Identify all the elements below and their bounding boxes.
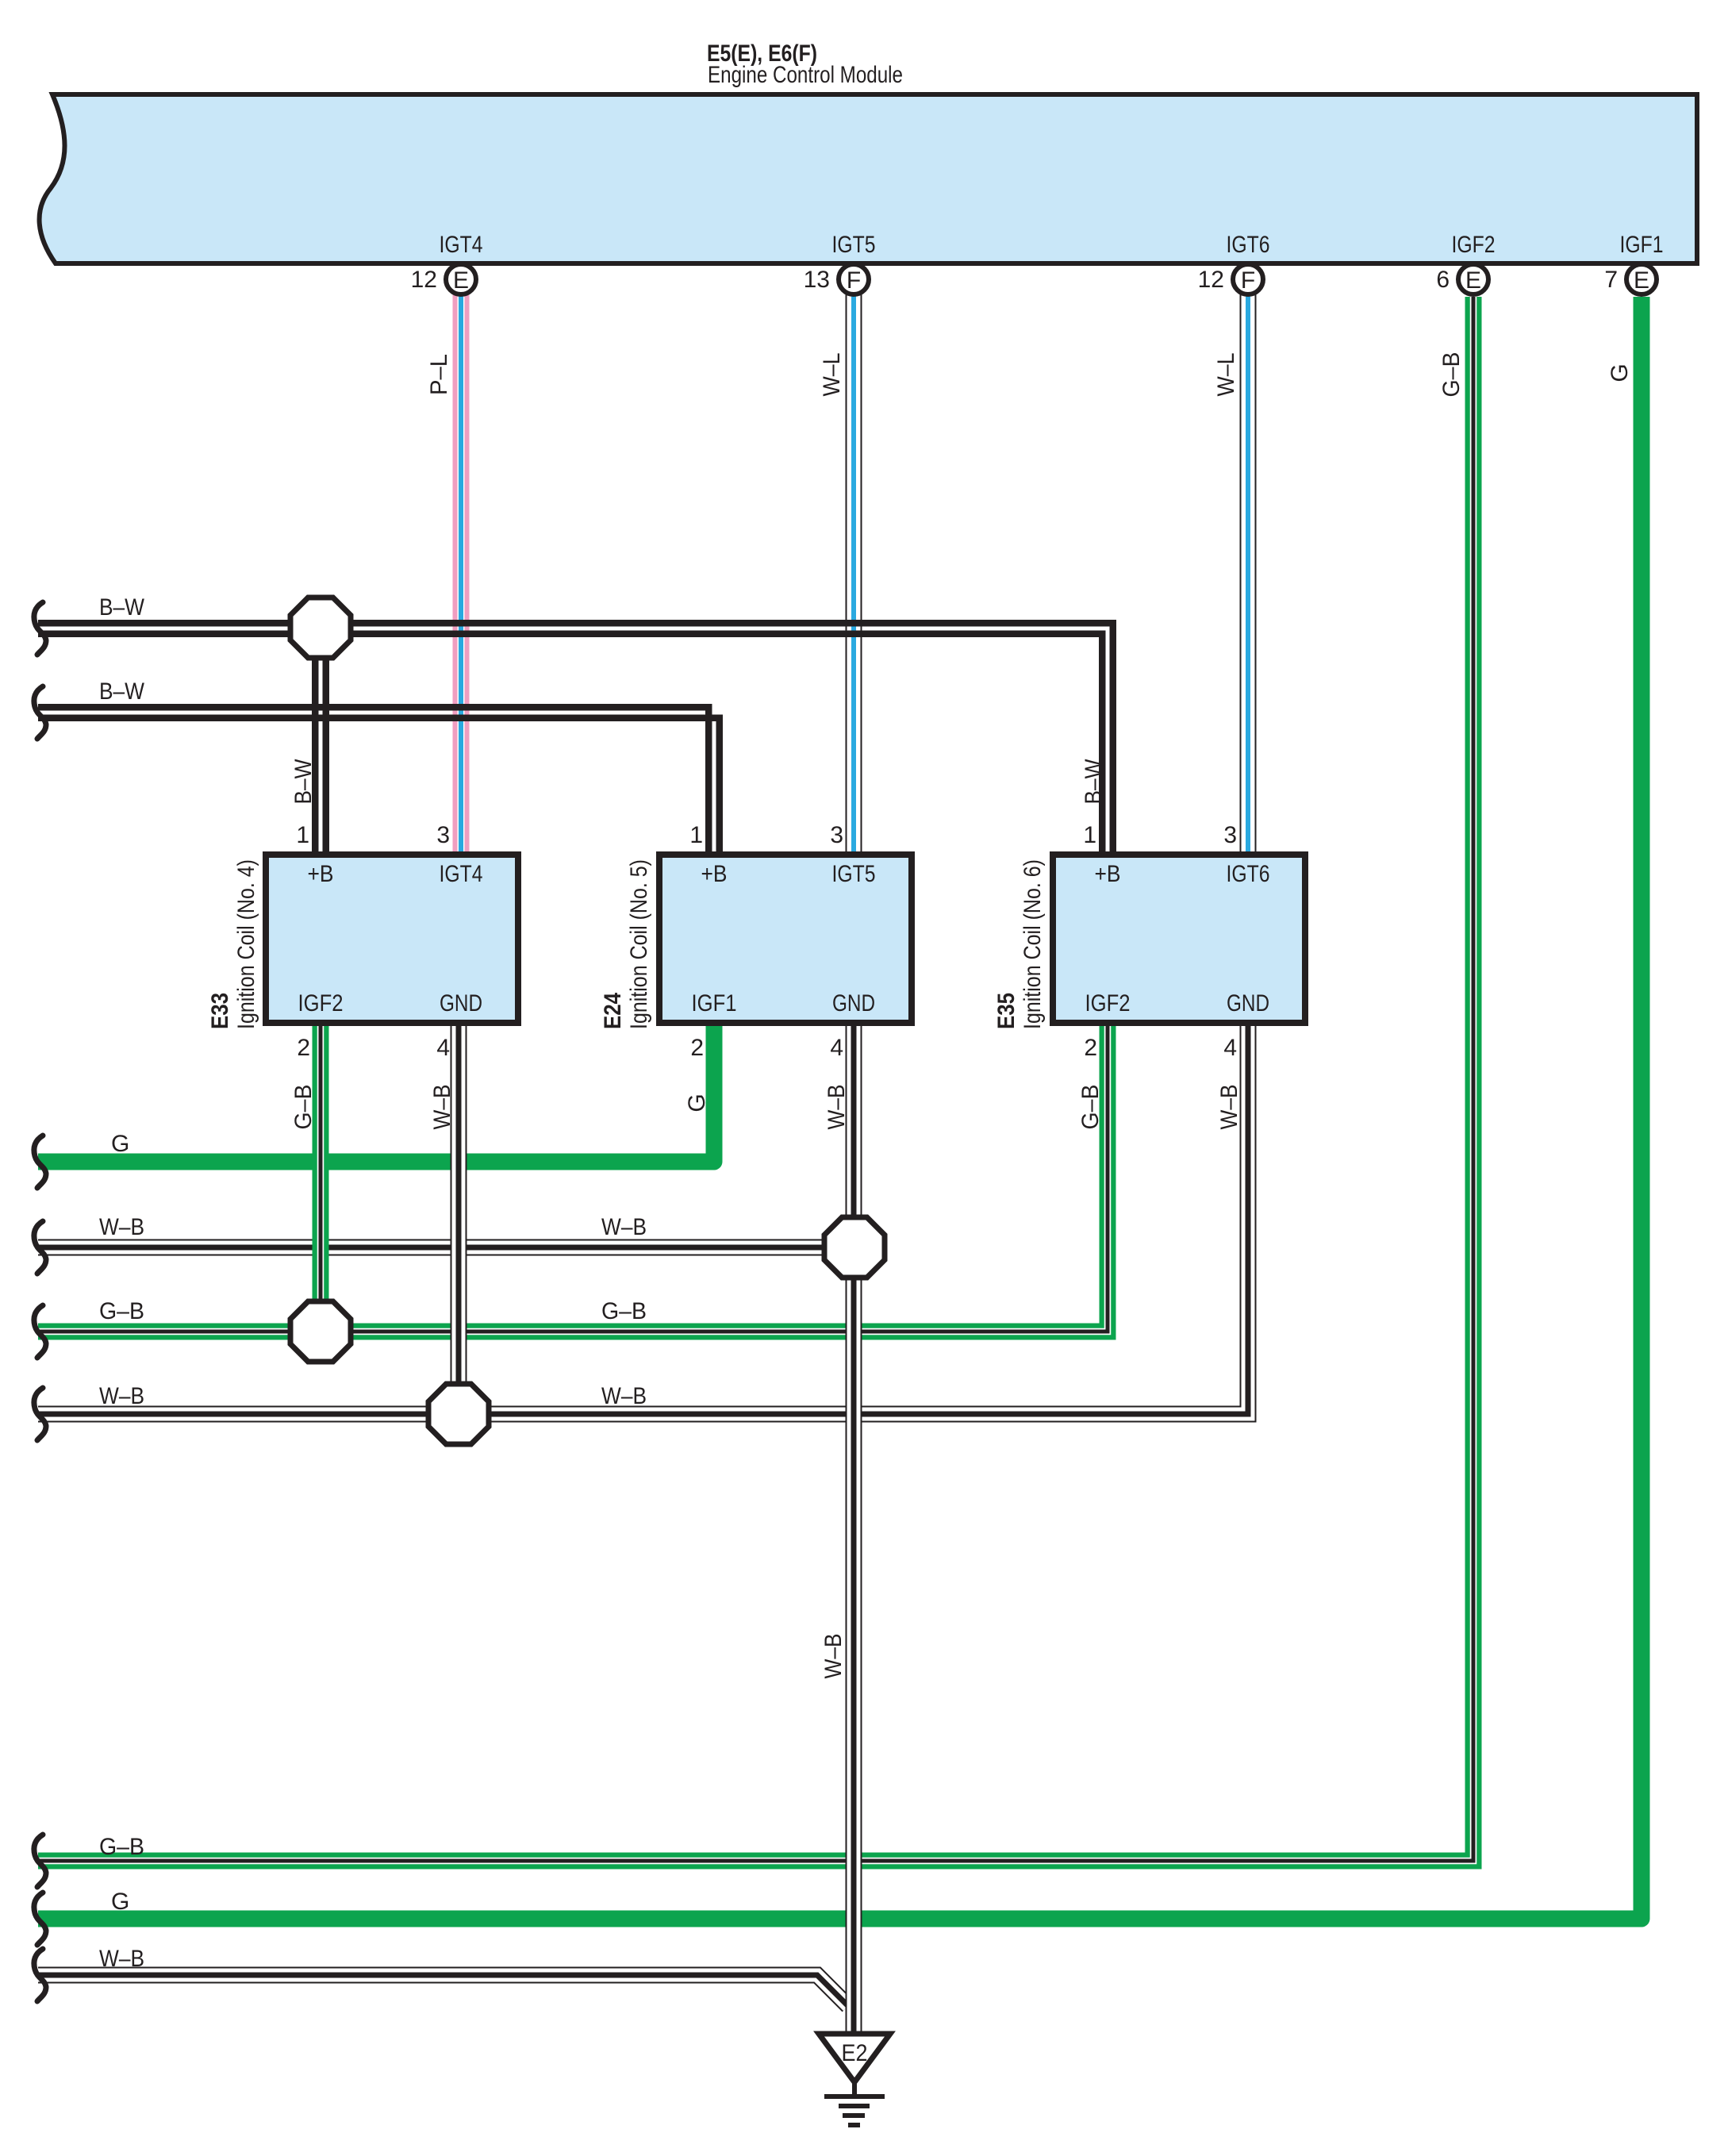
wire W-L from ECM pin IGT6 to coil6 IGT6: [1240, 292, 1257, 855]
wire B-W row1 from tear through junction J1 to coil6 +B: [38, 623, 1113, 855]
junction J3 octagon on W-B row2: [428, 1384, 489, 1444]
wire W-L from ECM pin IGT5 to coil5 IGT5: [846, 292, 862, 855]
svg-text:E33: E33: [207, 993, 233, 1029]
coil box E24 Ignition Coil (No. 5): [659, 855, 912, 1023]
svg-text:2: 2: [297, 1035, 310, 1061]
svg-text:W–L: W–L: [819, 353, 845, 397]
svg-text:12: 12: [411, 267, 437, 293]
svg-text:+B: +B: [1095, 861, 1121, 887]
svg-text:Engine Control Module: Engine Control Module: [708, 62, 903, 88]
svg-text:G: G: [684, 1093, 710, 1112]
svg-text:E24: E24: [600, 993, 626, 1029]
svg-text:B–W: B–W: [1081, 759, 1107, 805]
junction J2 octagon on G-B row: [290, 1301, 351, 1362]
svg-text:B–W: B–W: [99, 678, 145, 705]
svg-text:G: G: [111, 1131, 129, 1157]
wire G row from tear to coil5 IGF1: [38, 1023, 714, 1162]
svg-text:G–B: G–B: [99, 1834, 144, 1860]
wire W-B from coil4 GND down to junction J3: [451, 1023, 467, 1414]
wire name labels horizontal rows: [99, 594, 647, 1972]
svg-text:GND: GND: [1227, 990, 1269, 1017]
svg-text:F: F: [1241, 267, 1255, 294]
svg-text:Ignition Coil (No. 4): Ignition Coil (No. 4): [233, 859, 259, 1029]
svg-text:G–B: G–B: [601, 1298, 647, 1324]
svg-text:IGT6: IGT6: [1227, 232, 1270, 258]
svg-text:G–B: G–B: [1077, 1085, 1104, 1130]
svg-text:W–B: W–B: [601, 1214, 647, 1240]
svg-text:12: 12: [1198, 267, 1224, 293]
svg-text:IGF1: IGF1: [692, 990, 737, 1017]
svg-text:W–B: W–B: [429, 1085, 455, 1130]
svg-text:4: 4: [830, 1035, 843, 1061]
wire G from ECM pin IGF1 down and left to tear (bottom G row): [38, 297, 1642, 1919]
svg-text:IGF2: IGF2: [1452, 232, 1496, 258]
wire W-B row2 from tear through junction J3 to coil6 GND: [38, 1023, 1248, 1414]
svg-text:G–B: G–B: [99, 1298, 144, 1324]
ECM pin 12 F (IGT6): [1198, 232, 1270, 294]
coil box E33 Ignition Coil (No. 4): [266, 855, 518, 1023]
svg-text:W–B: W–B: [820, 1634, 847, 1679]
svg-text:W–L: W–L: [1213, 353, 1239, 397]
svg-text:2: 2: [690, 1035, 704, 1061]
rotated labels below coils: [290, 1085, 1242, 1679]
svg-text:7: 7: [1604, 267, 1618, 293]
svg-text:IGF1: IGF1: [1620, 232, 1664, 258]
svg-text:IGT5: IGT5: [832, 232, 876, 258]
ECM pin 12 E (IGT4): [411, 232, 483, 294]
svg-text:3: 3: [1223, 822, 1237, 848]
svg-text:E: E: [1634, 267, 1649, 294]
svg-text:IGT5: IGT5: [832, 861, 876, 887]
svg-text:+B: +B: [308, 861, 334, 887]
svg-text:B–W: B–W: [290, 759, 317, 805]
svg-text:6: 6: [1436, 267, 1450, 293]
svg-text:W–B: W–B: [99, 1383, 144, 1409]
svg-text:W–B: W–B: [1216, 1085, 1242, 1130]
wire B-W row2 from tear to coil5 +B: [38, 707, 720, 855]
tear symbols at left wire ends: [34, 602, 46, 2001]
svg-text:G–B: G–B: [290, 1085, 317, 1130]
ECM pin 7 E (IGF1): [1604, 232, 1663, 294]
svg-text:B–W: B–W: [99, 594, 145, 621]
svg-text:4: 4: [1223, 1035, 1237, 1061]
svg-text:2: 2: [1084, 1035, 1097, 1061]
coil designator labels rotated: [207, 859, 1046, 1029]
svg-text:IGT4: IGT4: [440, 861, 483, 887]
wire W-B bottom row from tear with jog to E2 vertical: [38, 1975, 848, 2006]
svg-text:G–B: G–B: [1438, 352, 1465, 398]
svg-text:W–B: W–B: [601, 1383, 647, 1409]
svg-text:GND: GND: [440, 990, 482, 1017]
svg-text:Ignition Coil (No. 6): Ignition Coil (No. 6): [1020, 859, 1046, 1029]
svg-text:1: 1: [296, 822, 309, 848]
svg-text:4: 4: [436, 1035, 450, 1061]
coil pin numbers: [296, 822, 1237, 1061]
ground symbol E2: [819, 2034, 890, 2125]
svg-text:3: 3: [830, 822, 843, 848]
svg-text:IGT6: IGT6: [1227, 861, 1270, 887]
wire W-B from coil5 GND down through junction J4 to ground E2: [846, 1023, 862, 2031]
svg-text:F: F: [847, 267, 861, 294]
wire G-B from coil4 IGF2 down to junction J2: [313, 1023, 329, 1332]
svg-text:E: E: [1465, 267, 1481, 294]
coil box E35 Ignition Coil (No. 6): [1053, 855, 1305, 1023]
svg-text:IGF2: IGF2: [298, 990, 344, 1017]
rotated wire labels under ECM: [426, 352, 1633, 398]
svg-text:1: 1: [689, 822, 703, 848]
svg-text:E: E: [453, 267, 469, 294]
wire G-B row from tear through junction J2 to coil6 IGF2: [38, 1023, 1108, 1332]
label ECM title: [707, 40, 903, 88]
wire P-L from ECM pin IGT4 to coil4 IGT4: [453, 294, 470, 855]
svg-text:+B: +B: [701, 861, 728, 887]
svg-text:E35: E35: [993, 993, 1020, 1029]
junction J4 octagon on W-B row1: [824, 1217, 885, 1278]
junction J1 octagon on B-W row1: [290, 598, 351, 658]
svg-text:W–B: W–B: [824, 1085, 850, 1130]
ECM box E5(E),E6(F) Engine Control Module: [40, 94, 1697, 263]
wire B-W from junction J1 down to coil4 +B: [315, 651, 326, 855]
svg-text:G: G: [1607, 363, 1633, 382]
svg-text:W–B: W–B: [99, 1214, 144, 1240]
svg-text:P–L: P–L: [426, 354, 452, 395]
svg-text:GND: GND: [832, 990, 875, 1017]
ECM pin 13 F (IGT5): [804, 232, 876, 294]
rotated B-W labels above coil +B pins: [290, 759, 1107, 805]
svg-text:13: 13: [804, 267, 830, 293]
svg-text:IGT4: IGT4: [440, 232, 483, 258]
svg-text:G: G: [111, 1889, 129, 1915]
ECM pin 6 E (IGF2): [1436, 232, 1495, 294]
svg-text:W–B: W–B: [99, 1946, 144, 1972]
svg-text:1: 1: [1083, 822, 1096, 848]
svg-text:IGF2: IGF2: [1085, 990, 1131, 1017]
wire W-B row1 from tear to junction J4: [38, 1239, 854, 1256]
wire G-B from ECM pin IGF2 down and left to tear (bottom G-B row): [38, 297, 1473, 1861]
svg-text:3: 3: [436, 822, 450, 848]
svg-text:E2: E2: [842, 2040, 868, 2066]
svg-text:Ignition Coil (No. 5): Ignition Coil (No. 5): [626, 859, 652, 1029]
